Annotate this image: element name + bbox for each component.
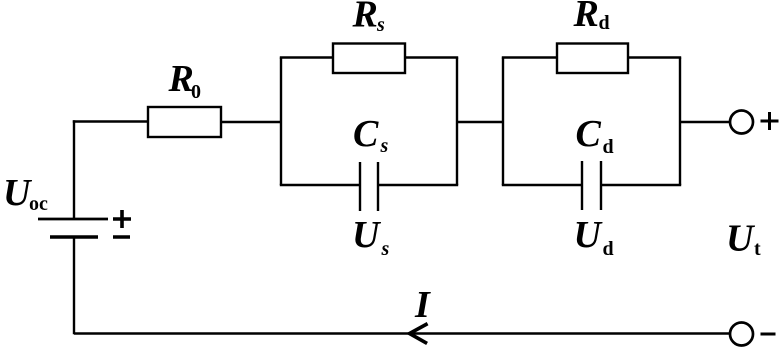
svg-text:s: s bbox=[381, 238, 390, 260]
svg-text:oc: oc bbox=[29, 193, 48, 215]
svg-text:U: U bbox=[574, 214, 604, 256]
svg-text:t: t bbox=[754, 238, 761, 260]
svg-text:C: C bbox=[576, 113, 602, 155]
svg-text:d: d bbox=[603, 238, 614, 260]
svg-text:R: R bbox=[352, 0, 378, 36]
svg-text:d: d bbox=[599, 12, 610, 34]
svg-text:U: U bbox=[352, 214, 382, 256]
svg-text:I: I bbox=[414, 284, 431, 326]
svg-text:d: d bbox=[603, 136, 614, 158]
svg-text:0: 0 bbox=[191, 81, 201, 103]
svg-text:U: U bbox=[726, 218, 756, 260]
svg-text:s: s bbox=[380, 135, 389, 157]
svg-text:R: R bbox=[168, 58, 194, 100]
svg-text:s: s bbox=[376, 14, 385, 36]
svg-text:R: R bbox=[573, 0, 599, 35]
svg-text:C: C bbox=[353, 113, 379, 155]
